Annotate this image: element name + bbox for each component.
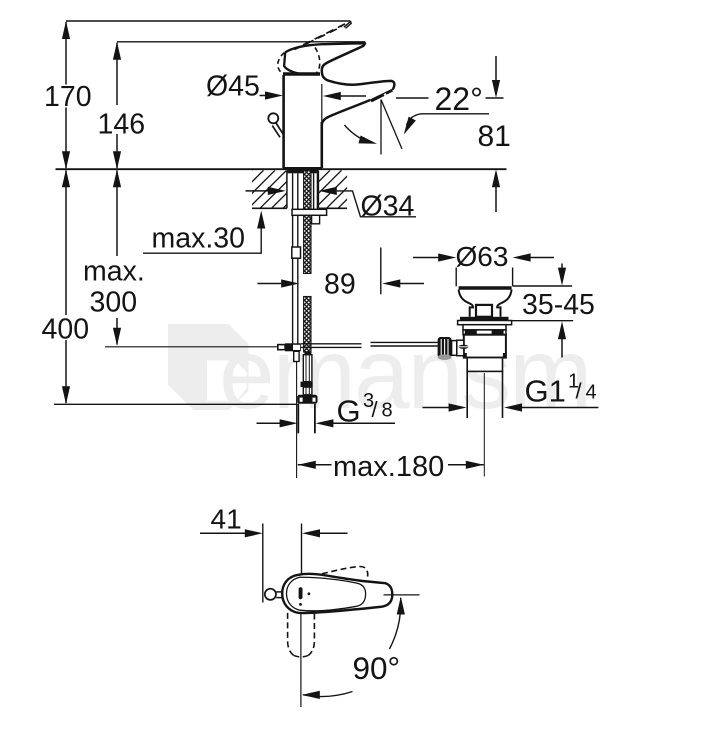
faucet body bottom bar xyxy=(283,167,322,169)
handle underside + spout top swoosh xyxy=(322,43,395,90)
svg-text:Ø63: Ø63 xyxy=(456,241,509,272)
top view: handle silhouette xyxy=(282,574,392,613)
top view: dashed spout xyxy=(288,613,315,657)
svg-text:400: 400 xyxy=(42,314,90,346)
plumb line below spout xyxy=(380,100,382,155)
svg-text:170: 170 xyxy=(44,81,92,113)
svg-text:G: G xyxy=(337,394,361,429)
dashed cartridge dome xyxy=(315,48,320,73)
swing arc xyxy=(345,125,373,143)
linkage junction block xyxy=(285,343,301,351)
svg-text:G1: G1 xyxy=(525,374,566,409)
junction left pin xyxy=(278,345,285,350)
dimension G3/8 xyxy=(257,422,282,424)
dashed raised handle edges xyxy=(295,22,350,50)
waste flange left profile xyxy=(459,290,473,317)
svg-text:8: 8 xyxy=(382,400,393,422)
level line max.300 / linkage reference xyxy=(105,346,278,348)
22 deg slant line xyxy=(381,100,402,150)
waste threaded pipe G1 1/4 xyxy=(467,371,502,418)
waste clamp body xyxy=(464,335,506,358)
top view: centerline xyxy=(300,613,302,707)
dimension G1 1/4 xyxy=(423,407,451,409)
horizontal linkage rod left segment xyxy=(301,344,362,348)
svg-text:max.30: max.30 xyxy=(152,223,245,255)
level line 400 xyxy=(54,403,298,405)
faucet body right edge lower xyxy=(320,122,323,168)
dimension 81 xyxy=(495,56,497,81)
linkage collar xyxy=(452,341,457,356)
linkage knurled nut xyxy=(438,337,452,358)
slab hole edges xyxy=(287,171,319,209)
hose body xyxy=(303,355,312,382)
faucet body top bar xyxy=(283,72,320,75)
hose top fitting xyxy=(304,351,311,354)
dimension 146 xyxy=(116,43,118,168)
aerator bars xyxy=(370,93,384,102)
svg-text:22°: 22° xyxy=(435,81,483,117)
vertical rod extension (max.180 reference) xyxy=(296,362,298,479)
threaded mounting stud (upper) xyxy=(304,171,311,274)
hose knurled nut xyxy=(303,387,312,395)
top view: pop-up knob xyxy=(265,589,276,600)
linkage bracket plate xyxy=(457,340,464,356)
dimension Ø45 xyxy=(260,95,267,97)
dimension Ø34 with leader xyxy=(246,190,270,192)
svg-text:max.: max. xyxy=(83,256,145,288)
handle top edge xyxy=(285,43,366,52)
dimension 170 xyxy=(65,22,67,168)
label 22° with leader xyxy=(396,97,429,99)
svg-text:/: / xyxy=(372,397,379,422)
label max.30 with leader xyxy=(143,226,261,253)
dimension max.180 xyxy=(298,464,332,466)
svg-text:35-45: 35-45 xyxy=(522,289,595,321)
rod lower tube xyxy=(294,351,299,361)
dimension max.300 xyxy=(116,171,118,345)
hose collar band xyxy=(301,382,313,387)
dimension 35-45 xyxy=(512,286,574,321)
dimension 400 xyxy=(65,171,67,404)
top view: dashed rotated handle xyxy=(322,567,368,578)
right tube stub xyxy=(312,215,320,224)
svg-text:300: 300 xyxy=(90,287,138,319)
dimension 41 xyxy=(263,524,302,603)
waste square peg xyxy=(476,305,492,317)
countertop line xyxy=(56,168,507,170)
dimension 89 xyxy=(380,248,382,295)
pop-up rod pair xyxy=(293,173,298,343)
pop-up knob xyxy=(268,113,278,123)
waste centerline xyxy=(483,373,485,477)
threaded mounting stud (lower) xyxy=(304,297,311,353)
spout underside xyxy=(322,100,370,124)
waste slot band xyxy=(463,330,506,335)
slab bottom edges xyxy=(252,207,347,209)
dimension Ø63 xyxy=(456,268,512,287)
clamp screw xyxy=(458,345,468,349)
spout outlet face xyxy=(370,89,392,100)
slab hatching left xyxy=(203,170,333,208)
svg-text:max.180: max.180 xyxy=(333,451,444,483)
dashed knuckle (raised position) xyxy=(278,53,285,75)
reference line 146 (handle top) xyxy=(117,41,365,43)
handle knuckle front xyxy=(284,52,305,74)
top reference line (raised handle height 170) xyxy=(66,20,350,22)
shank seal cap xyxy=(287,170,318,173)
svg-text:146: 146 xyxy=(98,109,146,141)
watermark logo xyxy=(168,324,249,410)
svg-text:41: 41 xyxy=(211,504,242,535)
rod connector sleeve xyxy=(292,247,301,258)
90 deg arc xyxy=(303,598,401,696)
faucet body right silhouette (thin, behind spout) xyxy=(321,84,323,124)
svg-text:Ø45: Ø45 xyxy=(206,71,260,103)
svg-text:4: 4 xyxy=(586,382,597,404)
faucet body left edge xyxy=(282,75,285,168)
mounting washer xyxy=(292,209,327,215)
svg-text:81: 81 xyxy=(478,120,511,153)
slab hatching right xyxy=(269,170,388,208)
hose elbow nut xyxy=(297,395,317,404)
waste gasket xyxy=(460,317,509,321)
svg-text:90°: 90° xyxy=(353,650,401,686)
waste flange right profile xyxy=(497,290,511,317)
waste tailpiece xyxy=(467,358,502,372)
right supply tube xyxy=(314,173,318,209)
raised handle tip xyxy=(344,22,351,29)
top view: inner outline xyxy=(287,577,366,611)
waste washer plate xyxy=(458,321,512,325)
svg-text:89: 89 xyxy=(324,269,356,301)
svg-text:/: / xyxy=(576,379,583,404)
waste flange top bar xyxy=(459,286,512,289)
top view: pull-rod slot xyxy=(299,587,303,599)
90 deg reference line xyxy=(384,594,420,596)
G3/8 pipe xyxy=(298,404,315,434)
horizontal linkage rod right segment xyxy=(371,342,438,346)
svg-text:Ø34: Ø34 xyxy=(361,191,415,223)
waste upper band xyxy=(463,325,506,330)
